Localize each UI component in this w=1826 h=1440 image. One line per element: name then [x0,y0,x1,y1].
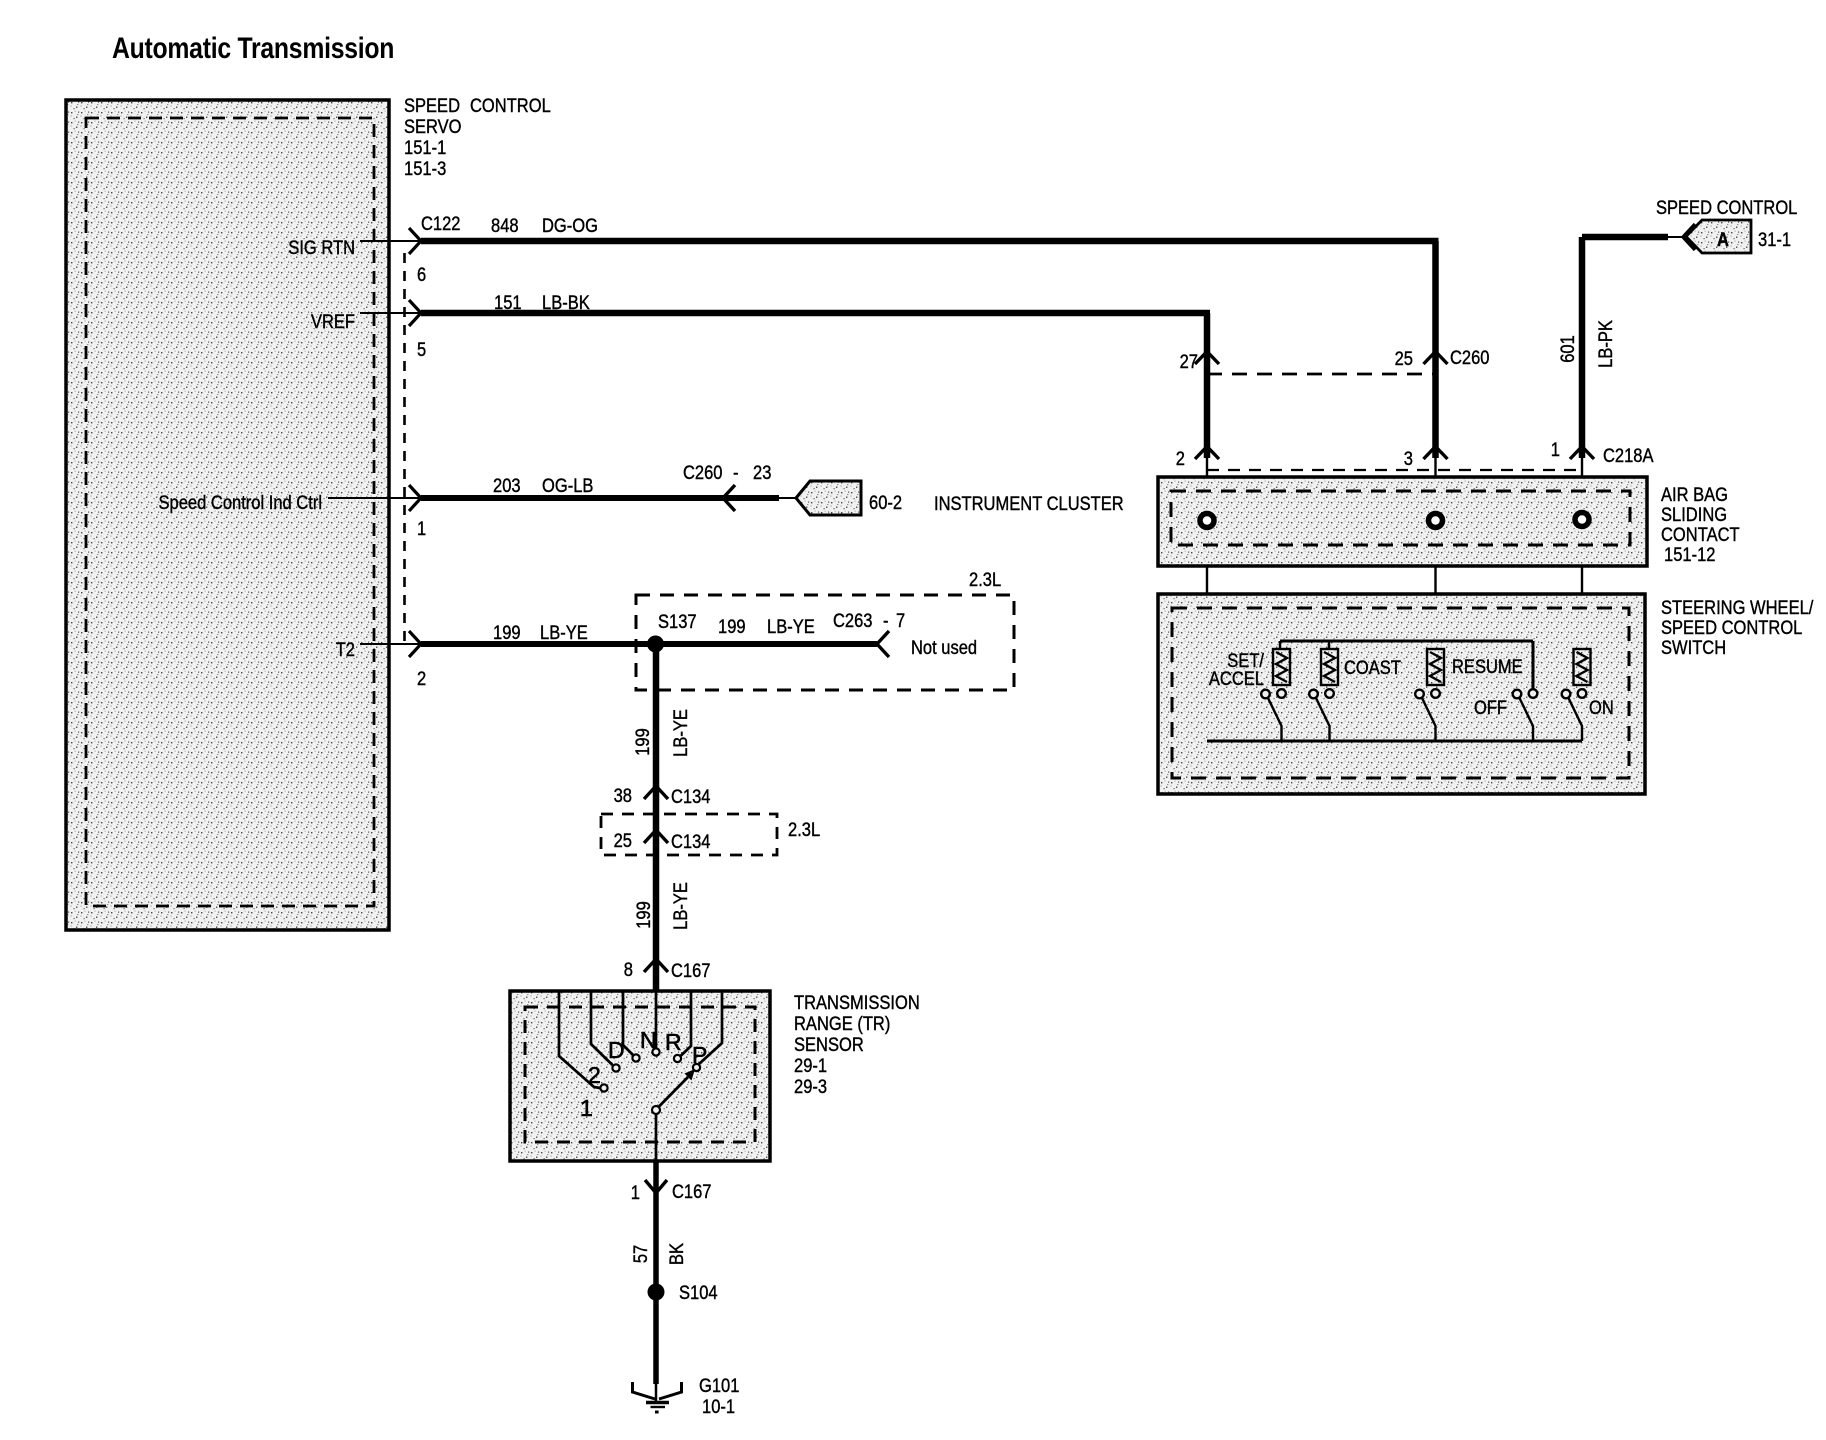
svg-text:151-1: 151-1 [404,137,446,158]
svg-text:C260: C260 [683,462,723,483]
svg-text:C134: C134 [671,831,711,852]
svg-text:Not used: Not used [911,637,977,658]
svg-text:C167: C167 [672,1181,711,1202]
svg-text:C263: C263 [833,610,873,631]
svg-text:D: D [608,1037,624,1063]
svg-text:23: 23 [753,462,771,483]
svg-text:LB-PK: LB-PK [1595,320,1616,368]
svg-text:Automatic Transmission: Automatic Transmission [112,31,394,65]
svg-text:2.3L: 2.3L [969,569,1001,590]
svg-text:LB-BK: LB-BK [542,292,590,313]
svg-text:AIR BAG: AIR BAG [1661,484,1728,505]
svg-text:CONTROL: CONTROL [470,95,551,116]
svg-text:P: P [692,1042,707,1068]
svg-text:5: 5 [417,339,426,360]
svg-text:C167: C167 [671,960,710,981]
svg-text:7: 7 [896,610,905,631]
svg-text:DG-OG: DG-OG [542,215,598,236]
svg-text:25: 25 [1395,348,1413,369]
svg-text:SPEED: SPEED [404,95,460,116]
svg-text:SERVO: SERVO [404,116,462,137]
svg-text:N: N [640,1027,656,1053]
svg-text:SPEED CONTROL: SPEED CONTROL [1656,197,1797,218]
svg-text:2: 2 [417,668,426,689]
svg-text:8: 8 [624,959,633,980]
svg-text:SLIDING: SLIDING [1661,504,1727,525]
svg-text:1: 1 [580,1095,592,1121]
svg-text:LB-YE: LB-YE [540,622,588,643]
svg-text:1: 1 [417,518,426,539]
svg-text:57: 57 [630,1245,651,1263]
svg-text:601: 601 [1557,335,1578,363]
svg-text:BK: BK [666,1243,687,1265]
svg-text:-: - [883,610,889,631]
svg-text:C218A: C218A [1603,445,1654,466]
svg-text:C134: C134 [671,786,711,807]
svg-text:1: 1 [631,1182,640,1203]
svg-text:29-1: 29-1 [794,1055,827,1076]
svg-text:SENSOR: SENSOR [794,1034,864,1055]
svg-text:SWITCH: SWITCH [1661,637,1726,658]
svg-text:38: 38 [614,785,632,806]
svg-text:CONTACT: CONTACT [1661,524,1740,545]
svg-text:INSTRUMENT CLUSTER: INSTRUMENT CLUSTER [934,493,1124,514]
svg-text:31-1: 31-1 [1758,229,1791,250]
svg-text:60-2: 60-2 [869,492,902,513]
svg-text:LB-YE: LB-YE [670,709,691,757]
svg-text:29-3: 29-3 [794,1076,827,1097]
svg-text:S104: S104 [679,1282,718,1303]
svg-text:3: 3 [1404,448,1413,469]
svg-text:848: 848 [491,215,519,236]
svg-text:2: 2 [588,1062,600,1088]
svg-text:VREF: VREF [311,311,355,332]
svg-text:OG-LB: OG-LB [542,475,593,496]
svg-text:RANGE (TR): RANGE (TR) [794,1013,890,1034]
svg-text:25: 25 [614,830,632,851]
svg-text:ACCEL: ACCEL [1209,668,1264,689]
svg-text:C122: C122 [421,213,460,234]
svg-text:199: 199 [493,622,521,643]
svg-text:LB-YE: LB-YE [670,882,691,930]
svg-text:10-1: 10-1 [702,1396,735,1417]
svg-text:LB-YE: LB-YE [767,616,815,637]
svg-text:199: 199 [633,901,654,929]
svg-text:TRANSMISSION: TRANSMISSION [794,992,920,1013]
svg-text:T2: T2 [336,639,355,660]
svg-text:RESUME: RESUME [1452,656,1523,677]
svg-text:G101: G101 [699,1375,740,1396]
svg-text:C260: C260 [1450,347,1490,368]
svg-text:151-3: 151-3 [404,158,446,179]
svg-text:151: 151 [494,292,522,313]
svg-text:199: 199 [718,616,746,637]
svg-text:203: 203 [493,475,521,496]
svg-text:SIG RTN: SIG RTN [288,237,355,258]
svg-text:ON: ON [1589,697,1614,718]
svg-text:199: 199 [632,728,653,756]
svg-text:S137: S137 [658,611,697,632]
svg-text:2: 2 [1176,448,1185,469]
svg-text:27: 27 [1180,351,1198,372]
svg-text:6: 6 [417,264,426,285]
svg-text:1: 1 [1551,439,1560,460]
svg-text:151-12: 151-12 [1664,544,1715,565]
svg-text:R: R [665,1029,681,1055]
svg-text:-: - [733,462,739,483]
svg-text:Speed Control Ind Ctrl: Speed Control Ind Ctrl [159,492,322,513]
svg-text:COAST: COAST [1344,657,1401,678]
svg-text:STEERING WHEEL/: STEERING WHEEL/ [1661,597,1813,618]
svg-text:A: A [1717,229,1729,250]
svg-text:SPEED CONTROL: SPEED CONTROL [1661,617,1802,638]
svg-text:2.3L: 2.3L [788,819,820,840]
svg-text:OFF: OFF [1474,697,1507,718]
